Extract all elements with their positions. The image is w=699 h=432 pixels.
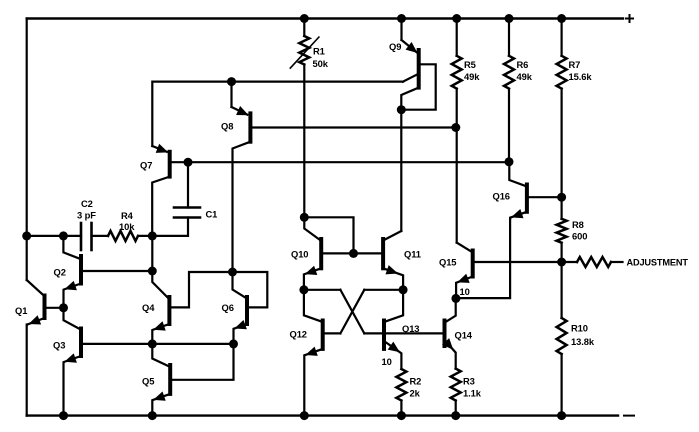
svg-text:600: 600 <box>572 231 587 242</box>
svg-text:R6: R6 <box>517 59 529 70</box>
label R2 <box>410 376 422 387</box>
label 600 <box>572 231 587 242</box>
transistor Q11 (NPN) <box>383 231 403 290</box>
label Q12 <box>290 329 307 340</box>
transistor Q4 (NPN) <box>152 271 169 344</box>
node junction R2 bottom <box>397 411 406 420</box>
wire Q1 base <box>45 307 64 309</box>
label 3 pF <box>77 210 96 221</box>
svg-text:ADJUSTMENT: ADJUSTMENT <box>627 258 689 268</box>
label R6 <box>517 59 529 70</box>
node junction R1 top <box>300 14 309 23</box>
capacitor C1 <box>152 162 200 236</box>
node junction Q7 base / R6 / Q16 collector <box>505 157 514 166</box>
node junction Q2 collector <box>59 231 68 240</box>
svg-text:2k: 2k <box>410 388 421 399</box>
svg-text:Q7: Q7 <box>140 160 152 171</box>
svg-text:10: 10 <box>460 286 470 297</box>
label R7 <box>569 59 581 70</box>
node junction Q10/Q11 common base <box>349 249 358 258</box>
wire Q4 base L-path <box>169 272 232 307</box>
node junction Q8 base / R5 <box>451 123 460 132</box>
wire V+ top rail <box>27 17 623 19</box>
svg-text:R1: R1 <box>313 46 325 57</box>
transistor Q15 (NPN) <box>456 243 473 299</box>
wire Q9 base-collector loop <box>401 64 435 109</box>
wire R4 to node <box>138 235 152 237</box>
wire cross diagonal right-to-left <box>340 290 364 334</box>
node junction R10 bottom <box>557 411 566 420</box>
capacitor C2 3 pF <box>81 223 92 250</box>
node + terminal label <box>626 15 633 22</box>
label R4 <box>121 210 134 221</box>
svg-text:Q10: Q10 <box>291 249 308 260</box>
svg-text:R5: R5 <box>464 59 476 70</box>
resistor R1 50k (adjustable) <box>290 19 319 69</box>
svg-text:Q9: Q9 <box>389 41 401 52</box>
node junction R6 top <box>505 14 514 23</box>
wire Q7 emitter rail y82 <box>152 82 403 146</box>
node Q9 collector junction <box>397 105 406 114</box>
wire cross-couple left horizontal <box>304 289 341 291</box>
label Q2 <box>54 267 66 278</box>
wire Q3 base node to Q5 node <box>152 343 233 345</box>
transistor Q6 (NPN) <box>233 272 248 344</box>
label Q4 <box>142 302 155 313</box>
svg-text:R10: R10 <box>571 323 588 334</box>
node junction R4 / C1 / Q7 collector <box>148 231 157 240</box>
node junction left frame / C2 row <box>22 231 31 240</box>
label 49k (R6) <box>517 71 533 82</box>
svg-text:C1: C1 <box>206 209 218 220</box>
svg-text:10: 10 <box>382 356 392 367</box>
transistor Q7 (PNP) <box>152 144 170 236</box>
svg-text:49k: 49k <box>517 71 533 82</box>
wire Q7 base to R6 bottom <box>170 161 509 163</box>
label Q16 <box>493 191 510 202</box>
svg-text:R8: R8 <box>572 219 584 230</box>
label R8 <box>572 219 584 230</box>
label Q5 <box>142 376 154 387</box>
label R5 <box>464 59 476 70</box>
resistor R5 49k <box>452 19 462 128</box>
wire Q6 base reverse-L <box>233 272 268 307</box>
resistor R9 adjustment series <box>562 257 623 267</box>
label 10 (Q13 emitter area) <box>382 356 392 367</box>
label R3 <box>463 376 475 387</box>
wire Q12 base <box>323 332 341 334</box>
label 15.6k <box>569 71 593 82</box>
wire C2 to R4 <box>92 235 109 237</box>
svg-text:R7: R7 <box>569 59 581 70</box>
svg-text:Q15: Q15 <box>439 257 456 268</box>
svg-text:Q13: Q13 <box>402 323 419 334</box>
label R10 <box>571 323 588 334</box>
transistor Q14 (NPN) <box>442 298 456 368</box>
label R1 <box>313 46 325 57</box>
wire Q2 base <box>81 270 152 272</box>
node junction Q10 emitter / Q12 collector <box>299 285 308 294</box>
resistor R3 1.1k <box>451 369 461 401</box>
wire left frame upper <box>26 19 28 281</box>
node junction Q4 base / Q6 base / Q8 collector <box>228 268 237 277</box>
label 13.8k <box>571 336 595 347</box>
transistor Q2 (NPN) <box>63 236 81 308</box>
label 10k <box>119 221 135 232</box>
label Q11 <box>404 249 421 260</box>
svg-text:Q4: Q4 <box>142 302 155 313</box>
svg-text:1.1k: 1.1k <box>463 388 482 399</box>
wire Q3 base <box>81 343 152 345</box>
node - terminal label <box>624 415 634 417</box>
label C2 <box>81 198 93 209</box>
svg-text:10k: 10k <box>119 221 135 232</box>
label Q13 <box>402 323 419 334</box>
wire Q10 Q11 base wire <box>321 252 383 254</box>
wire Q9 collector down to Q11 collector <box>400 110 402 231</box>
svg-text:Q3: Q3 <box>53 340 65 351</box>
wire frame to C2 <box>27 235 81 237</box>
resistor R7 15.6k <box>557 19 567 198</box>
wire R1 bottom to mirror node <box>303 65 305 218</box>
wire Q5 base path <box>170 344 233 380</box>
node junction Q15 emitter / Q14 collector / Q16 emitter <box>451 294 460 303</box>
node junction R7 top <box>557 14 566 23</box>
wire R5 bottom to Q15 collector <box>456 128 458 243</box>
label Q3 <box>53 340 65 351</box>
transistor Q1 (NPN) <box>27 280 45 325</box>
node junction Q3 emitter bottom <box>59 411 68 420</box>
svg-text:15.6k: 15.6k <box>569 71 593 82</box>
label Q15 <box>439 257 456 268</box>
svg-text:R4: R4 <box>121 210 134 221</box>
transistor Q13 (NPN) <box>384 290 403 369</box>
node junction C1 tap on Q7 base wire <box>184 158 193 167</box>
svg-text:Q6: Q6 <box>222 302 234 313</box>
node junction Q2 base / Q7 collector / Q4 collector <box>148 267 157 276</box>
label Q7 <box>140 160 152 171</box>
wire cross diagonal left-to-right <box>340 290 364 334</box>
resistor R10 13.8k <box>557 262 567 416</box>
wire Q7 collector node down to Q2 base node <box>151 236 153 271</box>
label 2k <box>410 388 421 399</box>
svg-text:3 pF: 3 pF <box>77 210 96 221</box>
node junction R1 bottom / Q10 collector <box>300 213 309 222</box>
node junction Q5 emitter bottom <box>148 411 157 420</box>
transistor Q3 (NPN) <box>64 308 82 416</box>
node junction Q16 base / R7 bottom / R8 top <box>557 193 566 202</box>
label 49k (R5) <box>464 71 480 82</box>
label Q9 <box>389 41 401 52</box>
svg-text:49k: 49k <box>464 71 480 82</box>
wire Q8 base to R5 bottom <box>250 126 455 128</box>
wire left frame lower <box>26 325 28 416</box>
node junction adjustment / R8 / R10 <box>557 258 566 267</box>
label Q14 <box>455 330 473 341</box>
node junction Q5 base / Q6 emitter <box>229 339 238 348</box>
transistor Q16 (NPN) <box>509 162 527 219</box>
svg-text:Q11: Q11 <box>404 249 421 260</box>
node junction R3 bottom <box>451 411 460 420</box>
transistor Q8 (PNP) <box>232 82 251 272</box>
label 50k <box>313 58 329 69</box>
svg-text:13.8k: 13.8k <box>571 336 595 347</box>
transistor Q10 (NPN) <box>304 217 321 289</box>
node junction R5 top <box>452 14 461 23</box>
wire cross-couple right horizontal <box>364 289 403 291</box>
wire Q16 emitter to Q15 emitter node <box>456 218 510 298</box>
node junction Q3 base / Q4 emitter / Q5 collector <box>148 339 157 348</box>
svg-text:Q5: Q5 <box>142 376 154 387</box>
label 10 (Q15 emitter area) <box>460 286 470 297</box>
wire R2 to rail <box>400 401 402 416</box>
label 1.1k <box>463 388 482 399</box>
transistor Q9 (diode-connected PNP) <box>401 19 418 110</box>
label Q10 <box>291 249 308 260</box>
resistor R4 10k <box>108 231 138 241</box>
label Q8 <box>221 121 233 132</box>
svg-text:Q2: Q2 <box>54 267 66 278</box>
wire V- bottom rail <box>27 414 618 416</box>
svg-text:Q8: Q8 <box>221 121 233 132</box>
svg-text:Q14: Q14 <box>455 330 473 341</box>
transistor Q5 (NPN) <box>152 344 170 416</box>
svg-text:Q12: Q12 <box>290 329 307 340</box>
node junction Q12 emitter bottom <box>300 411 309 420</box>
label ADJUSTMENT <box>627 258 689 268</box>
label Q1 <box>15 305 27 316</box>
label C1 <box>206 209 218 220</box>
wire Q13 Q14 base wire <box>364 332 444 334</box>
svg-text:R3: R3 <box>463 376 475 387</box>
label Q6 <box>222 302 234 313</box>
node junction Q1 base / Q3 collector <box>59 303 68 312</box>
resistor R8 600 <box>557 197 567 262</box>
wire Q15 base / adjustment node <box>473 261 562 263</box>
wire R3 to rail <box>455 401 457 416</box>
node Q8 emitter tap <box>227 77 236 86</box>
svg-text:C2: C2 <box>81 198 93 209</box>
wire Q10 collector-base loop <box>304 217 353 253</box>
svg-text:Q1: Q1 <box>15 305 27 316</box>
node junction Q9 emitter top <box>397 14 406 23</box>
node junction Q11 emitter / Q13 collector <box>399 285 408 294</box>
resistor R2 2k <box>396 369 406 401</box>
svg-text:Q16: Q16 <box>493 191 510 202</box>
resistor R6 49k <box>504 19 514 162</box>
transistor Q12 (NPN) <box>304 290 323 416</box>
wire Q16 base <box>527 196 562 198</box>
svg-text:50k: 50k <box>313 58 329 69</box>
svg-text:R2: R2 <box>410 376 422 387</box>
